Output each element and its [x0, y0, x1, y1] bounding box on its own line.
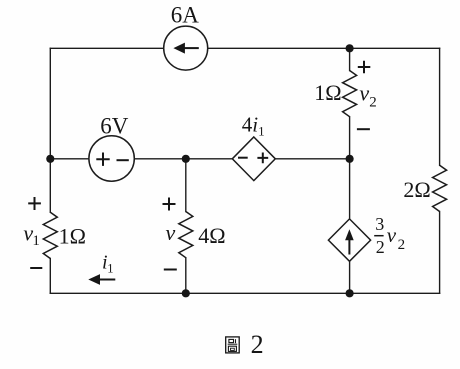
- svg-text:2: 2: [251, 330, 264, 359]
- svg-text:6A: 6A: [171, 2, 200, 27]
- svg-text:1Ω: 1Ω: [59, 224, 86, 249]
- svg-text:v: v: [387, 223, 397, 247]
- svg-text:2: 2: [376, 237, 385, 257]
- svg-text:3: 3: [375, 214, 384, 234]
- svg-text:4Ω: 4Ω: [198, 223, 225, 248]
- svg-text:v: v: [359, 80, 369, 105]
- svg-text:1Ω: 1Ω: [314, 80, 341, 105]
- svg-text:2: 2: [369, 94, 377, 110]
- svg-text:2: 2: [398, 237, 406, 253]
- svg-text:1: 1: [107, 261, 113, 275]
- svg-text:4i1: 4i1: [242, 113, 265, 139]
- svg-text:v: v: [166, 220, 176, 245]
- svg-text:2Ω: 2Ω: [403, 177, 430, 202]
- svg-text:1: 1: [32, 233, 40, 249]
- svg-text:6V: 6V: [100, 113, 129, 138]
